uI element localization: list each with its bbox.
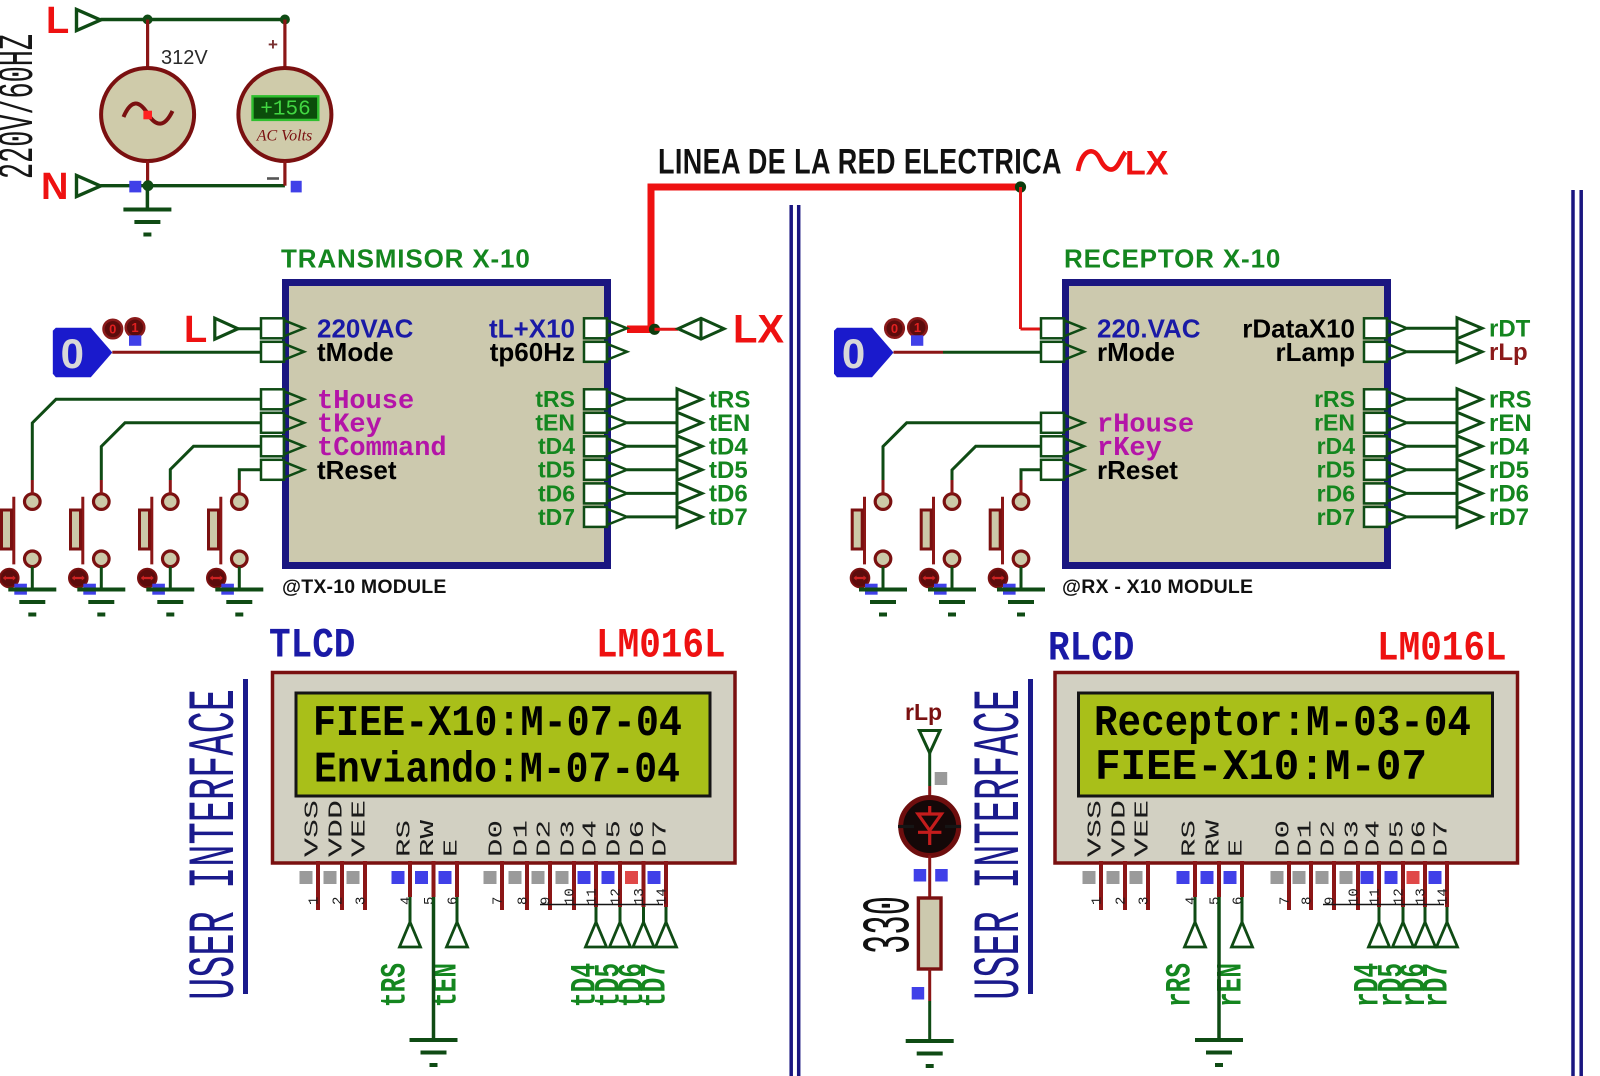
signal input arrow — [656, 907, 677, 947]
svg-text:2: 2 — [331, 897, 347, 905]
LCD pin 7 (D0) — [484, 820, 508, 910]
LCD pin 8 (D1) — [509, 820, 533, 910]
svg-text:13: 13 — [632, 888, 648, 905]
wire — [928, 856, 931, 899]
LCD pin 14 (D7) — [648, 820, 672, 907]
terminal tD6 — [677, 483, 702, 504]
wire thin red to receptor — [1019, 187, 1022, 329]
wire to ground — [169, 567, 172, 590]
svg-text:D3: D3 — [558, 820, 580, 857]
wire tD5 — [627, 468, 677, 471]
wire LX thick stub — [627, 326, 655, 334]
svg-text:7: 7 — [491, 897, 507, 905]
wire rRS — [1407, 398, 1457, 401]
wire to pin — [239, 470, 261, 494]
wire — [1021, 328, 1046, 331]
svg-text:VEE: VEE — [1132, 800, 1154, 857]
svg-text:Receptor:M-03-04: Receptor:M-03-04 — [1094, 699, 1471, 749]
svg-text:D5: D5 — [1387, 820, 1409, 857]
svg-text:D2: D2 — [1318, 820, 1340, 857]
svg-text:6: 6 — [1231, 897, 1247, 905]
svg-text:RECEPTOR X-10: RECEPTOR X-10 — [1064, 244, 1281, 274]
wire to pin — [170, 446, 261, 494]
pin tD5 of U1 — [538, 457, 627, 483]
svg-text:D7: D7 — [1431, 820, 1453, 857]
LCD pin 13 (D6) — [625, 820, 649, 907]
svg-text:0: 0 — [61, 330, 84, 377]
svg-text:rMode: rMode — [1097, 337, 1175, 367]
LCD screen — [1079, 693, 1493, 796]
svg-text:VEE: VEE — [349, 800, 371, 857]
LCD pin 5 (RW) — [1201, 819, 1225, 905]
svg-text:D6: D6 — [1409, 820, 1431, 857]
pin tD4 of U1 — [538, 433, 627, 459]
terminal tD5 — [677, 459, 702, 480]
svg-text:LX: LX — [733, 308, 784, 352]
terminal tD7 — [677, 506, 702, 527]
wire — [928, 969, 931, 1001]
pin tL+X10 of U1 — [489, 313, 627, 343]
terminal N (mains) — [41, 166, 101, 208]
svg-text:11: 11 — [585, 888, 601, 905]
ground — [881, 588, 885, 592]
svg-text:VDD: VDD — [1109, 800, 1131, 857]
terminal tD4 — [677, 436, 702, 457]
junction — [143, 15, 153, 25]
signal input arrow — [400, 897, 421, 947]
svg-text:1: 1 — [1090, 897, 1106, 905]
svg-text:rD7: rD7 — [1317, 504, 1355, 530]
pin rD5 of U2 — [1317, 457, 1407, 483]
pin number underline — [540, 904, 663, 906]
wire to pin — [1021, 470, 1041, 494]
node blue square — [935, 869, 948, 882]
svg-text:7: 7 — [1278, 897, 1294, 905]
LCD display text line 1 — [313, 699, 682, 749]
signal input arrow — [1437, 907, 1458, 947]
wire thin red to LX terminal — [655, 328, 679, 331]
svg-text:L: L — [46, 0, 69, 42]
pin rRS of U2 — [1314, 386, 1407, 412]
svg-text:N: N — [41, 166, 68, 208]
interactive actuator — [138, 569, 157, 588]
wire to pin — [883, 423, 1041, 494]
wire — [112, 351, 160, 354]
ground — [31, 588, 35, 592]
svg-text:D2: D2 — [534, 820, 556, 857]
wire — [160, 351, 261, 354]
node blue square — [1003, 584, 1016, 595]
svg-text:E: E — [441, 839, 463, 857]
svg-text:rD7: rD7 — [1489, 504, 1529, 531]
module U2 RECEPTOR X-10 box — [1066, 283, 1388, 566]
wire to ground — [238, 567, 241, 590]
svg-text:tReset: tReset — [317, 455, 397, 485]
ground — [1217, 897, 1221, 1040]
LCD pin 9 (D2) — [1316, 820, 1340, 910]
push button SW7 — [990, 494, 1029, 567]
LCD pin 10 (D3) — [1340, 820, 1364, 910]
pin tCommand of U1 — [261, 434, 447, 464]
terminal L (mains) — [46, 0, 101, 42]
ground — [1019, 588, 1023, 592]
svg-text:tD4: tD4 — [538, 433, 575, 459]
signal input arrow — [1185, 897, 1206, 947]
svg-text:TRANSMISOR X-10: TRANSMISOR X-10 — [281, 244, 531, 274]
wire to ground — [882, 567, 885, 590]
wire — [146, 161, 149, 186]
junction — [1015, 181, 1026, 192]
junction — [280, 15, 290, 25]
svg-text:AC Volts: AC Volts — [256, 128, 313, 145]
signal input arrow — [1393, 907, 1414, 947]
terminal tEN — [677, 412, 702, 433]
wire LX thick horizontal — [648, 184, 1021, 191]
node blue square — [152, 584, 165, 595]
terminal rD6 — [1457, 483, 1482, 504]
pin rD7 of U2 — [1317, 504, 1407, 530]
svg-text:4: 4 — [1184, 897, 1200, 905]
pin tEN of U1 — [535, 410, 627, 436]
svg-text:+: + — [268, 35, 278, 54]
pin rKey of U2 — [1041, 434, 1162, 464]
wire tD4 — [627, 445, 677, 448]
pin tKey of U1 — [261, 410, 382, 440]
LCD pin 9 (D2) — [532, 820, 556, 910]
svg-text:rLamp: rLamp — [1276, 337, 1355, 367]
signal input arrow — [633, 907, 654, 947]
node blue square — [14, 584, 27, 595]
pin rMode of U2 — [1041, 337, 1175, 367]
svg-text:8: 8 — [1300, 897, 1316, 905]
LCD pin 12 (D5) — [602, 820, 626, 907]
pin tD6 of U1 — [538, 480, 627, 506]
svg-text:@TX-10 MODULE: @TX-10 MODULE — [282, 576, 447, 598]
wire L top — [101, 18, 286, 21]
svg-text:FIEE-X10:M-07-04: FIEE-X10:M-07-04 — [313, 699, 682, 749]
LCD pin 2 (VDD) — [324, 800, 348, 910]
terminal rDT — [1457, 318, 1482, 339]
LCD pin 8 (D1) — [1293, 820, 1317, 910]
label LM016L — [596, 622, 726, 669]
wire tD6 — [627, 492, 677, 495]
svg-text:tD7: tD7 — [709, 504, 748, 531]
wire LX thick vertical — [648, 187, 655, 329]
LCD pin 1 (VSS) — [300, 800, 324, 910]
svg-text:D0: D0 — [486, 820, 508, 857]
svg-text:rEN: rEN — [1314, 410, 1355, 436]
AC source V1 — [101, 68, 194, 161]
junction — [649, 324, 660, 335]
LCD pin 3 (VEE) — [1130, 800, 1154, 910]
wire to ground — [31, 567, 34, 590]
svg-text:2: 2 — [1114, 897, 1130, 905]
terminal rRS — [1457, 389, 1482, 410]
terminal rLp input (down arrow) — [919, 731, 940, 754]
svg-text:D7: D7 — [650, 820, 672, 857]
wire N — [101, 184, 285, 187]
svg-text:L: L — [184, 309, 207, 351]
LCD display text line 2 — [1095, 743, 1427, 793]
interactive actuator — [0, 569, 19, 588]
svg-text:13: 13 — [1414, 888, 1430, 905]
node blue square — [912, 987, 925, 1000]
svg-text:RS: RS — [1179, 820, 1201, 857]
interactive actuator — [69, 569, 88, 588]
ground — [100, 588, 104, 592]
label LM016L — [1377, 625, 1507, 672]
resistor R1 330 — [918, 898, 941, 969]
svg-text:rD4: rD4 — [1317, 433, 1356, 459]
svg-text:10: 10 — [1347, 888, 1363, 905]
svg-text:rD6: rD6 — [1317, 480, 1355, 506]
svg-text:tMode: tMode — [317, 337, 394, 367]
wire — [943, 351, 1041, 354]
ground — [928, 1039, 932, 1043]
push button SW3 — [140, 494, 179, 567]
pin tD7 of U1 — [538, 504, 627, 530]
svg-text:0: 0 — [842, 330, 865, 377]
svg-text:rLp: rLp — [905, 699, 942, 725]
pin rD4 of U2 — [1317, 433, 1407, 459]
LCD display text line 2 — [314, 746, 680, 796]
svg-text:1: 1 — [307, 897, 323, 905]
svg-text:rRS: rRS — [1314, 386, 1355, 412]
LCD pin 14 (D7) — [1429, 820, 1453, 907]
wire rLp — [1407, 350, 1457, 353]
pin rReset of U2 — [1041, 455, 1178, 485]
terminal rEN — [1457, 412, 1482, 433]
pin rLamp of U2 — [1276, 337, 1407, 367]
svg-text:rRS: rRS — [1161, 963, 1201, 1007]
LCD pin 1 (VSS) — [1083, 800, 1107, 910]
LCD pin 6 (E) — [1224, 839, 1248, 905]
pin rDataX10 of U2 — [1242, 313, 1407, 343]
wire to pin — [952, 446, 1041, 494]
svg-text:tEN: tEN — [535, 410, 575, 436]
pin 220VAC of U1 — [261, 313, 414, 343]
state indicator 1 — [126, 318, 145, 337]
signal input arrow — [447, 897, 468, 947]
wire — [238, 327, 261, 330]
svg-text:rD5: rD5 — [1317, 457, 1356, 483]
svg-text:tp60Hz: tp60Hz — [490, 337, 575, 367]
wire — [283, 161, 286, 186]
pin rD6 of U2 — [1317, 480, 1407, 506]
signal input arrow — [610, 907, 631, 947]
svg-text:D1: D1 — [511, 820, 533, 857]
separator line — [243, 679, 248, 994]
push button SW6 — [921, 494, 960, 567]
svg-text:USER INTERFACE: USER INTERFACE — [963, 689, 1038, 1000]
svg-text:D0: D0 — [1273, 820, 1295, 857]
wire rD7 — [1407, 515, 1457, 518]
junction — [143, 180, 154, 191]
svg-text:VSS: VSS — [302, 800, 324, 857]
voltmeter AC Volts — [238, 68, 331, 161]
wire tRS — [627, 398, 677, 401]
state indicator 1 — [908, 318, 927, 337]
svg-text:RLCD: RLCD — [1048, 625, 1134, 672]
separator line — [1028, 679, 1033, 994]
svg-text:tRS: tRS — [535, 386, 575, 412]
svg-text:+156: +156 — [260, 99, 310, 122]
svg-text:D5: D5 — [604, 820, 626, 857]
node blue square — [129, 181, 141, 193]
signal input arrow — [1232, 897, 1253, 947]
svg-text:330: 330 — [852, 896, 929, 954]
svg-text:D4: D4 — [1363, 820, 1385, 857]
svg-text:tD5: tD5 — [538, 457, 575, 483]
state indicator 0 — [104, 320, 123, 339]
section divider — [791, 205, 799, 1076]
svg-text:5: 5 — [422, 897, 438, 905]
terminal LX bidirectional — [678, 318, 724, 339]
LCD pin 4 (RS) — [1177, 820, 1201, 905]
signal input arrow — [1369, 907, 1390, 947]
LCD pin 5 (RW) — [415, 819, 439, 905]
wire tEN — [627, 421, 677, 424]
wire — [928, 753, 931, 786]
wire — [146, 20, 149, 69]
wire — [928, 1001, 931, 1041]
signal input arrow — [1415, 907, 1436, 947]
interactive actuator — [851, 569, 870, 588]
ground — [146, 186, 150, 210]
svg-text:11: 11 — [1368, 888, 1384, 905]
LCD pin 10 (D3) — [556, 820, 580, 910]
wire — [928, 786, 931, 799]
interactive actuator — [989, 569, 1008, 588]
terminal rD4 — [1457, 436, 1482, 457]
LCD pin 3 (VEE) — [347, 800, 371, 910]
LCD pin 4 (RS) — [392, 820, 416, 905]
wire tD7 — [627, 515, 677, 518]
svg-text:12: 12 — [609, 888, 625, 905]
svg-text:LM016L: LM016L — [1377, 625, 1507, 672]
svg-text:E: E — [1226, 839, 1248, 857]
wire rD4 — [1407, 445, 1457, 448]
svg-text:220V/60HZ: 220V/60HZ — [0, 34, 48, 179]
ground — [950, 588, 954, 592]
wire — [894, 351, 944, 354]
label RLCD — [1048, 625, 1134, 672]
svg-text:3: 3 — [1137, 897, 1153, 905]
svg-text:rD7: rD7 — [1418, 963, 1458, 1007]
LCD pin 12 (D5) — [1385, 820, 1409, 907]
wire rD6 — [1407, 492, 1457, 495]
terminal L input — [215, 318, 238, 339]
pin tMode of U1 — [261, 337, 394, 367]
label LINEA DE LA RED ELECTRICA — [658, 141, 1062, 182]
LCD screen — [296, 693, 710, 796]
LCD module body — [273, 673, 736, 864]
terminal rLp — [1457, 341, 1482, 362]
svg-text:VDD: VDD — [326, 800, 348, 857]
wire to pin — [32, 399, 261, 494]
svg-text:10: 10 — [563, 888, 579, 905]
svg-text:0: 0 — [891, 321, 898, 336]
LCD display text line 1 — [1094, 699, 1471, 749]
svg-text:LM016L: LM016L — [596, 622, 726, 669]
svg-text:D6: D6 — [627, 820, 649, 857]
svg-text:D1: D1 — [1295, 820, 1317, 857]
LCD pin 13 (D6) — [1407, 820, 1431, 907]
svg-text:1: 1 — [131, 320, 138, 335]
section divider — [1573, 190, 1581, 1076]
svg-text:LINEA DE LA RED ELECTRICA: LINEA DE LA RED ELECTRICA — [658, 141, 1062, 182]
svg-text:USER INTERFACE: USER INTERFACE — [178, 689, 253, 1000]
svg-text:RW: RW — [1203, 819, 1225, 857]
LCD pin 11 (D4) — [578, 820, 602, 907]
state indicator 0 — [885, 319, 904, 338]
node gray square — [935, 772, 948, 785]
wire to pin — [101, 423, 261, 494]
logic state 0 (rMode) — [834, 328, 894, 378]
signal input arrow — [586, 907, 607, 947]
module U1 TRANSMISOR X-10 box — [286, 283, 608, 566]
node blue square — [83, 584, 96, 595]
wire rEN — [1407, 421, 1457, 424]
svg-text:6: 6 — [446, 897, 462, 905]
pin tp60Hz of U1 — [490, 337, 627, 367]
svg-text:14: 14 — [1436, 888, 1452, 905]
svg-text:RW: RW — [417, 819, 439, 857]
svg-text:4: 4 — [399, 897, 415, 905]
terminal rD7 — [1457, 506, 1482, 527]
svg-text:tD7: tD7 — [636, 963, 676, 1007]
label - polarity — [267, 177, 279, 180]
ground — [432, 897, 436, 1040]
pin rEN of U2 — [1314, 410, 1407, 436]
svg-text:tD7: tD7 — [538, 504, 575, 530]
wire to ground — [1020, 567, 1023, 590]
svg-text:3: 3 — [354, 897, 370, 905]
pin number underline — [1323, 904, 1444, 906]
terminal tRS — [677, 389, 702, 410]
pin tHouse of U1 — [261, 387, 414, 417]
push button SW1 — [1, 494, 40, 567]
svg-text:312V: 312V — [161, 47, 208, 69]
svg-text:D4: D4 — [580, 820, 602, 857]
svg-text:tD6: tD6 — [538, 480, 575, 506]
node blue square — [291, 181, 302, 193]
svg-text:TLCD: TLCD — [269, 622, 355, 669]
svg-text:rReset: rReset — [1097, 455, 1178, 485]
wire to ground — [100, 567, 103, 590]
svg-text:8: 8 — [516, 897, 532, 905]
wire rD5 — [1407, 468, 1457, 471]
svg-text:5: 5 — [1208, 897, 1224, 905]
node blue square — [221, 584, 234, 595]
svg-text:Enviando:M-07-04: Enviando:M-07-04 — [314, 746, 680, 796]
logic state 0 (tMode) — [53, 328, 113, 378]
svg-text:1: 1 — [914, 320, 921, 335]
svg-text:12: 12 — [1392, 888, 1408, 905]
svg-text:LX: LX — [1125, 145, 1169, 183]
terminal rD5 — [1457, 459, 1482, 480]
LCD pin 2 (VDD) — [1107, 800, 1131, 910]
svg-text:FIEE-X10:M-07: FIEE-X10:M-07 — [1095, 743, 1427, 793]
svg-text:tRS: tRS — [376, 963, 416, 1007]
svg-text:D3: D3 — [1342, 820, 1364, 857]
node blue square — [865, 584, 878, 595]
ground — [238, 588, 242, 592]
ground — [169, 588, 173, 592]
net LX sine symbol — [1078, 151, 1126, 171]
svg-text:VSS: VSS — [1085, 800, 1107, 857]
push button SW2 — [71, 494, 110, 567]
